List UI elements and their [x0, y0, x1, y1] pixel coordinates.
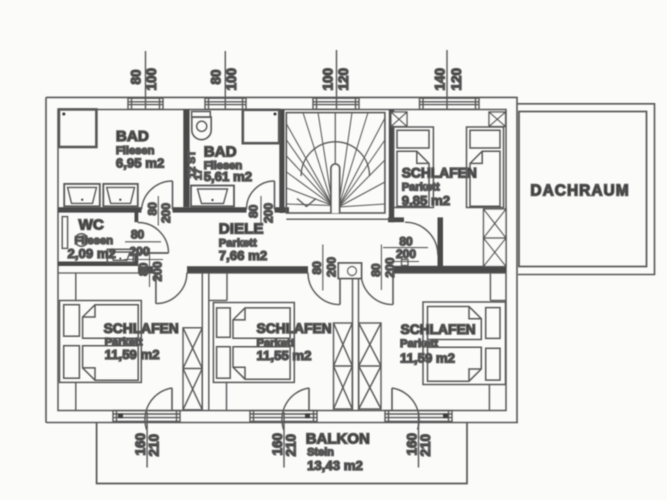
wall diele top (bad1 segment) — [58, 207, 142, 212]
outer outline dachraum annex — [517, 104, 655, 275]
dimension witness line window W4 — [446, 50, 448, 109]
outer wall boundary main building — [46, 97, 518, 422]
svg-text:BAD: BAD — [204, 144, 237, 161]
svg-text:200: 200 — [151, 261, 165, 281]
staircase box — [286, 113, 385, 213]
door bad2 (80/200) — [246, 181, 274, 210]
niche stub wall schlafen bottom-right — [490, 274, 506, 301]
dimension witness line window W2 — [224, 51, 226, 109]
svg-text:SCHLAFEN: SCHLAFEN — [402, 166, 477, 181]
wall diele top (right of bad2 door) — [275, 207, 290, 212]
sink wc — [107, 249, 133, 262]
svg-text:BAD: BAD — [116, 128, 149, 145]
svg-text:Parkett: Parkett — [402, 182, 440, 194]
wall between bad1 and bad2 — [183, 110, 189, 208]
door label bad2 80/200 — [246, 196, 275, 226]
door label schlafen bottom-middle 80/200 — [310, 245, 338, 291]
svg-text:120: 120 — [449, 68, 464, 91]
wardrobe X-box top-right schlafen top-right — [489, 112, 506, 127]
dimension witness line balcony door D2 — [283, 412, 285, 468]
dimension witness line balcony door D1 — [146, 412, 148, 468]
svg-text:200: 200 — [396, 247, 416, 261]
svg-text:Stein: Stein — [307, 447, 334, 459]
svg-text:9,85 m2: 9,85 m2 — [402, 193, 450, 208]
dimension label 80/100 window W1 — [129, 68, 160, 91]
wall schlafen bottom-right top — [393, 266, 506, 273]
balcony door window symbol D3 — [385, 411, 452, 422]
chimney shaft with circle — [338, 263, 361, 279]
svg-text:210: 210 — [147, 434, 162, 457]
balcony french door swing D2 — [282, 388, 309, 430]
shower bad1 — [59, 109, 97, 147]
dimension witness line balcony door D3 — [418, 412, 420, 468]
door label bad1 80/200 — [146, 196, 174, 226]
svg-text:SCHLAFEN: SCHLAFEN — [401, 322, 476, 337]
door label schlafen bottom-right 80/200 — [369, 245, 397, 291]
dimension label 160/210 balcony door D2 — [270, 433, 299, 457]
svg-text:200: 200 — [262, 203, 276, 223]
staircase newel U — [331, 164, 340, 213]
wall diele top (between bad doors) — [173, 207, 247, 212]
svg-text:SCHLAFEN: SCHLAFEN — [257, 321, 332, 336]
svg-text:DIELE: DIELE — [219, 220, 264, 237]
wall between staircase and schlafen top-right — [389, 110, 394, 223]
wall line bedrooms top edge left — [58, 272, 156, 274]
svg-text:5,61 m2: 5,61 m2 — [204, 169, 252, 184]
svg-text:80: 80 — [246, 204, 260, 218]
svg-text:17: 17 — [193, 168, 205, 180]
staircase treads right fan — [339, 113, 385, 207]
staircase treads left fan — [287, 113, 333, 206]
svg-text:80: 80 — [369, 263, 383, 277]
svg-text:80: 80 — [146, 202, 160, 216]
wall schlafen top-right bottom-left segment — [388, 217, 404, 222]
bed schlafen bottom-right — [423, 302, 506, 385]
door schlafen bottom-right (80/200) — [361, 273, 393, 305]
staircase center tread line — [334, 113, 336, 164]
door label schlafen bottom-left 80/200 — [137, 248, 165, 287]
staircase bottom double line — [286, 218, 394, 220]
svg-text:Parkett: Parkett — [400, 338, 438, 350]
window W1 80/100 bad1 — [128, 98, 163, 109]
shower bad2 — [243, 110, 279, 143]
balcony door window symbol D1 — [113, 411, 180, 422]
niche stub wall schlafen bottom-middle — [209, 273, 227, 301]
svg-text:210: 210 — [284, 434, 299, 457]
staircase walk semicircle — [301, 142, 369, 176]
niche stub below bed schlafen bottom-middle — [226, 382, 228, 410]
svg-text:200: 200 — [324, 257, 338, 277]
dimension witness line window W1 — [145, 51, 147, 109]
toilet wc — [62, 217, 87, 249]
svg-text:2,09 m2: 2,09 m2 — [68, 246, 116, 261]
wall between bad2 and staircase — [279, 110, 284, 214]
svg-text:100: 100 — [320, 68, 335, 91]
svg-text:BALKON: BALKON — [306, 431, 370, 448]
inner wall boundary main building — [58, 110, 506, 411]
wardrobe column schlafen top-right (2 X-boxes) — [484, 209, 507, 267]
svg-text:DACHRAUM: DACHRAUM — [530, 183, 629, 200]
svg-text:11,59 m2: 11,59 m2 — [105, 347, 160, 362]
sink bad2 — [191, 186, 234, 207]
svg-text:13,43 m2: 13,43 m2 — [307, 458, 363, 473]
svg-text:210: 210 — [418, 434, 433, 457]
wall diele bottom left segment — [138, 266, 153, 272]
svg-text:100: 100 — [224, 68, 239, 91]
window W3 100/120 staircase — [313, 98, 359, 109]
bed 1 schlafen top-right — [394, 127, 434, 208]
wardrobe column schlafen bottom-middle (2 X-boxes) — [334, 323, 353, 409]
door bad1 (80/200) — [142, 181, 173, 210]
niche stub below bed schlafen bottom-right — [488, 385, 490, 411]
wall wc right lower — [135, 253, 139, 266]
wall wc right upper — [135, 212, 139, 223]
dimension label 160/210 balcony door D1 — [133, 433, 162, 457]
svg-text:120: 120 — [336, 68, 351, 91]
bed 2 schlafen top-right — [467, 127, 504, 208]
partition schlafen bottom-middle / bottom-right — [353, 277, 359, 410]
svg-text:11,59 m2: 11,59 m2 — [400, 350, 455, 365]
wardrobe X-box top-left schlafen top-right — [391, 112, 407, 127]
dimension label 80/100 window W2 — [209, 68, 240, 91]
niche stub wall schlafen bottom-left — [75, 273, 77, 301]
balcony door window symbol D2 — [250, 411, 317, 422]
dimension label 140/120 window W4 — [432, 68, 464, 91]
window W4 140/120 schlafen top right — [420, 98, 480, 109]
door schlafen top-right (80/200) — [402, 222, 438, 265]
wall nook schlafen top-right / diele — [438, 217, 444, 273]
svg-text:SCHLAFEN: SCHLAFEN — [104, 321, 179, 336]
dimension witness line window W3 — [336, 50, 338, 109]
svg-text:6,95 m2: 6,95 m2 — [116, 156, 164, 171]
wall diele bottom middle segment — [187, 266, 308, 272]
balcony french door swing D3 — [392, 388, 419, 430]
wall wc bottom — [58, 262, 138, 267]
svg-text:80: 80 — [129, 69, 144, 84]
sink 2 bad1 — [103, 184, 138, 206]
svg-text:11,55 m2: 11,55 m2 — [257, 348, 312, 363]
sink 1 bad1 — [64, 184, 100, 206]
balcony french door swing D1 — [145, 388, 172, 430]
door wc (80/200) — [138, 222, 169, 253]
svg-text:80: 80 — [137, 262, 151, 276]
dimension label 160/210 balcony door D3 — [404, 433, 433, 457]
svg-text:80: 80 — [209, 69, 224, 84]
door schlafen bottom-left (80/200) — [156, 273, 187, 304]
wardrobe column schlafen bottom-left (2 X-boxes) — [183, 328, 202, 410]
wall line bedrooms top edge middle — [187, 272, 308, 274]
svg-text:200: 200 — [129, 244, 149, 258]
door schlafen bottom-middle (80/200) — [308, 273, 340, 305]
svg-text:200: 200 — [159, 203, 173, 223]
dachraum room box — [519, 112, 647, 267]
svg-text:80: 80 — [131, 228, 145, 242]
svg-text:80: 80 — [310, 261, 324, 275]
svg-text:100: 100 — [144, 68, 159, 91]
dimension label 100/120 window W3 — [320, 68, 351, 91]
svg-text:7,66 m2: 7,66 m2 — [219, 248, 267, 263]
balcony outline — [97, 423, 467, 484]
staircase direction arrow — [297, 199, 316, 207]
svg-text:WC: WC — [79, 217, 104, 234]
toilet bad2 — [192, 112, 212, 140]
bed schlafen bottom-middle — [213, 303, 294, 383]
door label schlafen top-right 80/200 — [383, 234, 428, 261]
wardrobe column schlafen bottom-right (2 X-boxes) — [359, 323, 381, 409]
bed schlafen bottom-left — [60, 301, 142, 383]
wall line bedrooms top edge right — [393, 272, 506, 274]
niche stub below bed schlafen bottom-left — [75, 382, 77, 410]
window W2 80/100 bad2 — [205, 98, 246, 109]
svg-text:140: 140 — [432, 68, 447, 91]
door label wc 80/200 — [124, 228, 163, 260]
partition schlafen bottom-left / bottom-middle — [202, 273, 209, 411]
